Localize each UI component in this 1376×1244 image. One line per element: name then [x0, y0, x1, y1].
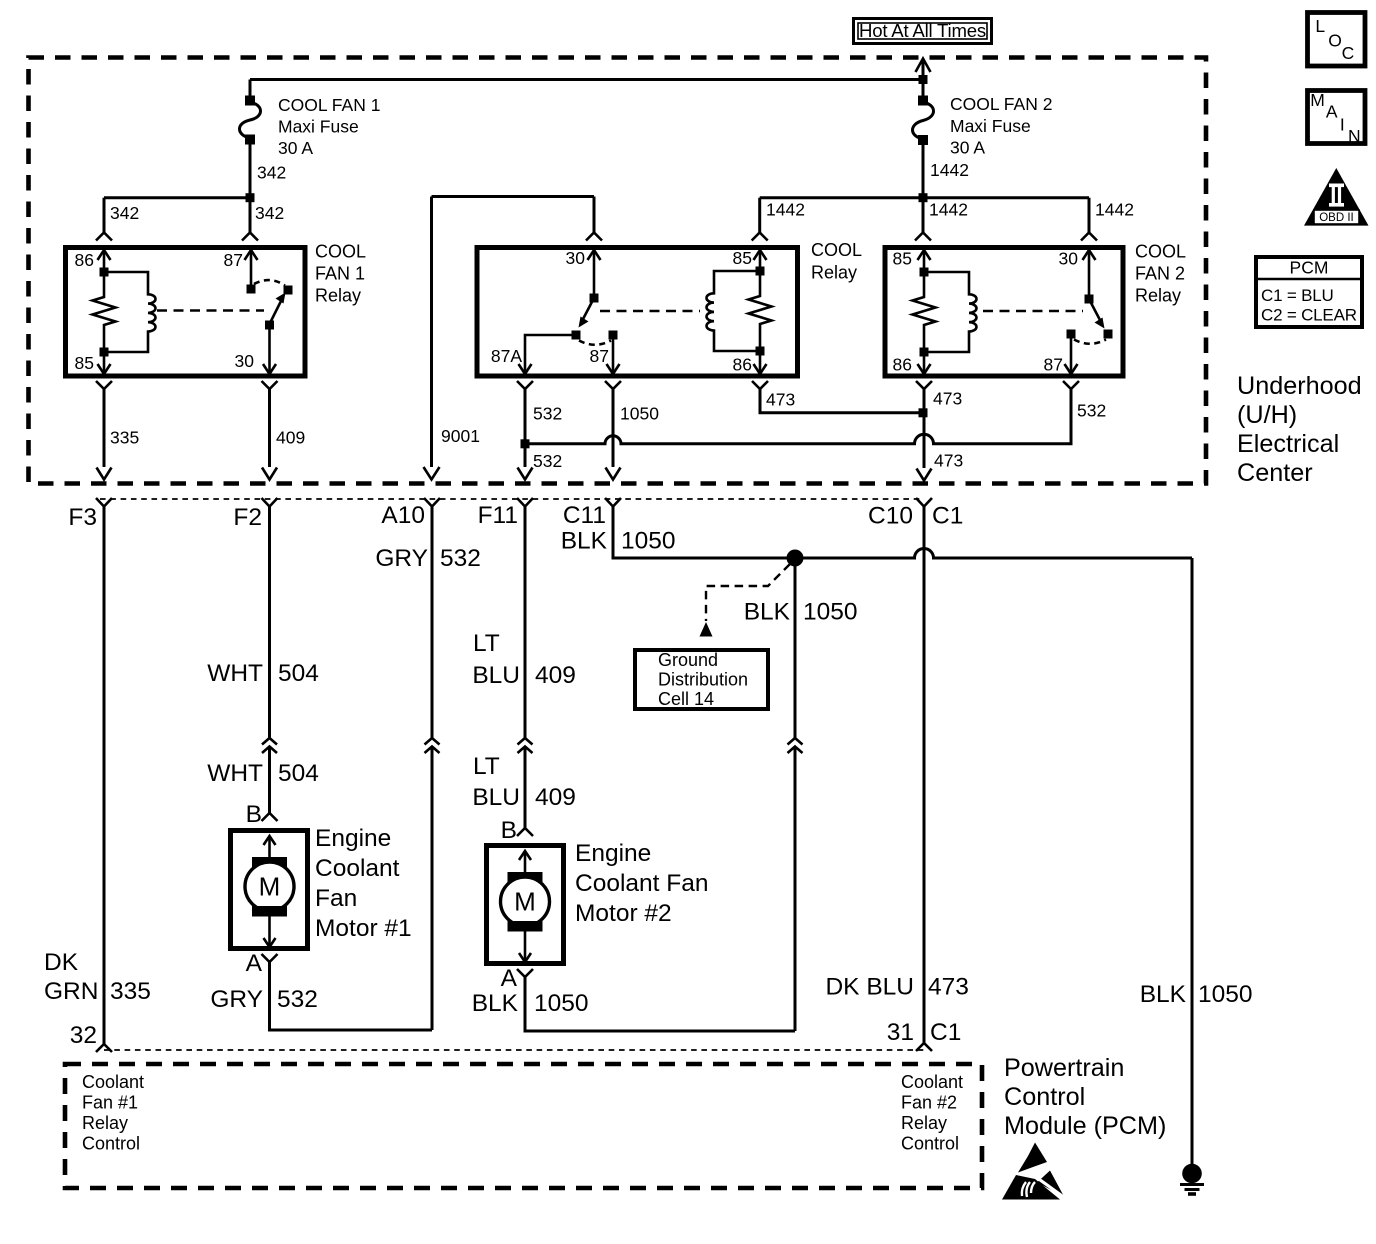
- svg-text:F2: F2: [233, 504, 262, 531]
- Underhood Electrical Center dashed boundary box: [29, 58, 1207, 484]
- svg-text:Coolant: Coolant: [82, 1072, 144, 1092]
- svg-text:FAN 2: FAN 2: [1135, 264, 1185, 284]
- COOL relay coil winding: [706, 271, 760, 351]
- connector above COOL relay pin 30: [586, 233, 602, 241]
- connector: motor2 pin A: [501, 965, 533, 992]
- relay1 switch arm: [254, 280, 293, 329]
- svg-text:C10: C10: [868, 503, 913, 530]
- connector below COOL relay pin 86 (473): [752, 381, 923, 413]
- connector F3: [68, 498, 112, 531]
- wire: 532 link to relay2 pin 87 with hops: [525, 397, 1106, 444]
- svg-text:Control: Control: [82, 1134, 140, 1154]
- svg-text:30: 30: [566, 248, 586, 268]
- svg-text:A10: A10: [381, 502, 425, 529]
- relay1 pin 86 arrow: [75, 250, 111, 277]
- svg-text:Engine: Engine: [575, 840, 651, 867]
- svg-text:31: 31: [887, 1019, 914, 1046]
- svg-text:Coolant: Coolant: [901, 1072, 963, 1092]
- svg-text:PCM: PCM: [1290, 258, 1329, 278]
- break symbol on GRY 532: [425, 738, 440, 753]
- relay1 pin 85 arrow: [75, 352, 111, 374]
- Powertrain Control Module dashed box: [65, 1064, 982, 1188]
- svg-text:(U/H): (U/H): [1237, 401, 1297, 429]
- wire: 342 branch to relay 1: [104, 198, 284, 233]
- COOL relay pin 30 arrow: [566, 248, 601, 303]
- svg-text:1050: 1050: [534, 990, 589, 1017]
- break symbol on WHT 504: [262, 738, 277, 753]
- svg-text:1442: 1442: [929, 200, 968, 220]
- svg-text:DK: DK: [44, 949, 79, 976]
- svg-text:GRN: GRN: [44, 978, 98, 1005]
- wire: BLK 1050 from motor2 A to ground branch: [472, 977, 795, 1031]
- connector below COOL relay pin 87A (532): [517, 381, 562, 480]
- svg-text:Fan #2: Fan #2: [901, 1093, 957, 1113]
- svg-text:85: 85: [733, 248, 752, 268]
- relay box: COOL FAN 1 Relay: [66, 242, 367, 377]
- wire: drop to fuse 1: [249, 80, 252, 101]
- svg-text:532: 532: [440, 545, 481, 572]
- relay2 pin 30 arrow: [1059, 249, 1096, 304]
- connector below relay2 pin 86 (473): [916, 381, 963, 481]
- svg-text:Relay: Relay: [315, 286, 361, 306]
- connector below relay2 pin 87 (532): [1063, 381, 1079, 397]
- label: Coolant Fan #2 Relay Control: [901, 1072, 963, 1154]
- svg-text:A: A: [246, 950, 263, 977]
- svg-text:LT: LT: [473, 630, 500, 657]
- COOL relay coil resistor: [749, 271, 772, 356]
- wire: C11 BLK 1050 to ground junction: [561, 507, 1192, 559]
- label: Powertrain Control Module (PCM): [1004, 1054, 1166, 1140]
- svg-text:C2 = CLEAR: C2 = CLEAR: [1261, 306, 1357, 325]
- COOL relay pin 87A arrow: [491, 335, 576, 374]
- svg-text:30 A: 30 A: [950, 138, 985, 158]
- connector above relay2 pin 30: [1081, 233, 1097, 241]
- svg-text:86: 86: [75, 250, 94, 270]
- wire: 9001 from COOL relay pin 30: [424, 197, 595, 480]
- svg-text:1050: 1050: [1198, 981, 1253, 1008]
- svg-text:87: 87: [224, 250, 243, 270]
- wire: horizontal feed to fuse 1: [250, 78, 923, 81]
- svg-text:1442: 1442: [930, 160, 969, 180]
- svg-text:Fan #1: Fan #1: [82, 1093, 138, 1113]
- svg-text:C: C: [1342, 43, 1355, 63]
- svg-text:OBD II: OBD II: [1319, 212, 1354, 224]
- svg-text:504: 504: [278, 660, 319, 687]
- COOL relay coil-switch dashed link: [600, 310, 700, 313]
- label: Underhood (U/H) Electrical Center: [1237, 372, 1362, 487]
- svg-text:O: O: [1328, 30, 1342, 50]
- connector above relay1 pin 87: [242, 233, 258, 241]
- relay2 coil winding: [920, 272, 977, 357]
- COOL relay pin 86 arrow: [733, 351, 767, 375]
- COOL relay switch arm: [572, 298, 618, 345]
- svg-text:473: 473: [766, 389, 795, 409]
- legend: MAIN box: [1308, 90, 1366, 146]
- motor: Engine Coolant Fan Motor #1: [231, 825, 412, 949]
- svg-text:B: B: [246, 801, 262, 828]
- svg-text:N: N: [1348, 126, 1361, 146]
- svg-text:COOL FAN 2: COOL FAN 2: [950, 94, 1052, 114]
- wire: WHT 504 continues to motor1: [207, 747, 319, 829]
- svg-text:A: A: [1326, 102, 1338, 122]
- break symbol on LT BLU 409: [518, 738, 533, 753]
- svg-text:LT: LT: [473, 753, 500, 780]
- svg-text:Relay: Relay: [82, 1113, 128, 1133]
- node: 532 junction: [521, 439, 530, 448]
- svg-text:32: 32: [70, 1022, 97, 1049]
- svg-text:Motor #2: Motor #2: [575, 900, 672, 927]
- PCM connector face dashed line: [104, 1049, 924, 1051]
- connector below relay1 pin 85: [96, 381, 139, 480]
- Ground Distribution Cell 14 reference box: [635, 650, 768, 709]
- svg-text:C1: C1: [930, 1019, 961, 1046]
- svg-text:1442: 1442: [766, 200, 805, 220]
- svg-text:Ground: Ground: [658, 650, 718, 670]
- svg-text:DK BLU: DK BLU: [825, 973, 914, 1000]
- connector: PCM pin 32: [96, 1044, 112, 1052]
- relay1 pin 87 contact: [224, 250, 258, 294]
- relay2 pin 86 arrow: [893, 352, 931, 375]
- svg-text:L: L: [1315, 16, 1325, 36]
- svg-text:Motor #1: Motor #1: [315, 915, 412, 942]
- svg-text:342: 342: [255, 203, 284, 223]
- svg-text:Hot At All Times: Hot At All Times: [859, 20, 986, 41]
- svg-text:Center: Center: [1237, 459, 1313, 487]
- svg-text:GRY: GRY: [210, 986, 263, 1013]
- svg-text:BLK: BLK: [1140, 981, 1187, 1008]
- svg-text:Control: Control: [901, 1134, 959, 1154]
- connector F11: [478, 498, 533, 529]
- svg-text:BLK: BLK: [472, 990, 519, 1017]
- svg-text:1050: 1050: [620, 403, 659, 423]
- node: 342 branch junction: [246, 193, 255, 202]
- svg-text:COOL: COOL: [315, 242, 366, 262]
- svg-text:86: 86: [733, 355, 752, 375]
- svg-text:Relay: Relay: [811, 263, 857, 283]
- svg-text:WHT: WHT: [207, 660, 263, 687]
- svg-text:GRY: GRY: [375, 545, 428, 572]
- svg-text:532: 532: [1077, 401, 1106, 421]
- svg-text:Powertrain: Powertrain: [1004, 1054, 1124, 1082]
- svg-text:85: 85: [75, 353, 94, 373]
- Hot At All Times power label box: [854, 19, 992, 44]
- dashed reference arrow to ground distribution: [700, 564, 791, 637]
- fuse: COOL FAN 2 Maxi Fuse 30 A: [913, 94, 1053, 198]
- node: BLK 1050 ground junction: [787, 550, 804, 567]
- svg-text:FAN 1: FAN 1: [315, 264, 365, 284]
- connector below COOL relay pin 87 (1050): [605, 381, 659, 480]
- wire: battery feed into U/H center (arrow up): [916, 59, 931, 101]
- svg-text:B: B: [501, 817, 517, 844]
- connector above COOL relay pin 85: [752, 233, 768, 241]
- svg-text:342: 342: [110, 203, 139, 223]
- svg-text:Module (PCM): Module (PCM): [1004, 1112, 1166, 1140]
- motor: Engine Coolant Fan Motor #2: [487, 840, 709, 964]
- svg-text:COOL FAN 1: COOL FAN 1: [278, 95, 380, 115]
- svg-text:Fan: Fan: [315, 885, 357, 912]
- svg-text:BLK: BLK: [561, 528, 608, 555]
- svg-text:87: 87: [590, 346, 609, 366]
- svg-text:Cell 14: Cell 14: [658, 689, 714, 709]
- svg-text:F11: F11: [478, 502, 518, 529]
- COOL relay pin 85 arrow: [733, 248, 767, 276]
- svg-text:Maxi Fuse: Maxi Fuse: [950, 116, 1031, 136]
- relay1 coil resistor: [93, 272, 116, 352]
- svg-text:409: 409: [535, 784, 576, 811]
- svg-text:Maxi Fuse: Maxi Fuse: [278, 117, 359, 137]
- wire: GRY 532 from motor1 A to A10 column: [210, 962, 432, 1030]
- connector: motor1 pin B: [262, 813, 278, 821]
- svg-text:9001: 9001: [441, 426, 480, 446]
- wire: F11 LT BLU 409 down to motor2 B: [472, 507, 576, 738]
- wire: BLK 1050 branch continues: [794, 747, 797, 1032]
- svg-text:473: 473: [928, 973, 969, 1000]
- connector F2: [233, 498, 277, 531]
- svg-text:F3: F3: [68, 504, 97, 531]
- relay2 pin 87 arrow: [1044, 334, 1078, 375]
- relay2 pin 85 arrow: [893, 249, 931, 277]
- svg-text:409: 409: [276, 428, 305, 448]
- relay box: COOL Relay: [477, 240, 862, 376]
- connector: PCM pin 31 C1: [916, 1043, 932, 1051]
- wire: ground branch down to motor2 A: [744, 558, 858, 738]
- svg-text:M: M: [514, 887, 536, 917]
- svg-text:Electrical: Electrical: [1237, 430, 1339, 458]
- ESD sensitivity symbol: [1002, 1143, 1065, 1200]
- wire: F3 DK GRN 335 down to PCM pin 32: [44, 507, 151, 1050]
- svg-text:30: 30: [235, 351, 255, 371]
- node: feed junction: [919, 75, 928, 84]
- svg-text:409: 409: [535, 662, 576, 689]
- svg-text:30: 30: [1059, 249, 1079, 269]
- svg-text:87A: 87A: [491, 346, 522, 366]
- svg-text:1442: 1442: [1095, 200, 1134, 220]
- relay2 coil-switch dashed link: [983, 310, 1083, 313]
- wire: C10 DK BLU 473 down to PCM pin 31: [825, 507, 968, 1047]
- wire: BLK 1050 to chassis ground: [1140, 558, 1253, 1164]
- fuse: COOL FAN 1 Maxi Fuse 30 A: [240, 95, 381, 198]
- svg-text:30 A: 30 A: [278, 138, 313, 158]
- relay2 coil resistor: [913, 272, 936, 352]
- legend: LOC box: [1308, 13, 1366, 67]
- svg-text:Coolant: Coolant: [315, 855, 400, 882]
- relay2 switch arm: [1067, 299, 1113, 344]
- break symbol on BLK 1050 branch: [788, 738, 803, 753]
- connector A10: [381, 498, 440, 529]
- wire: F2 WHT 504 down to motor1 B: [207, 507, 319, 738]
- U/H connector face dashed line: [100, 498, 920, 500]
- svg-text:473: 473: [934, 451, 963, 471]
- svg-text:86: 86: [893, 355, 912, 375]
- svg-text:532: 532: [277, 986, 318, 1013]
- svg-text:BLU: BLU: [472, 784, 520, 811]
- svg-text:Relay: Relay: [901, 1113, 947, 1133]
- svg-text:335: 335: [110, 978, 151, 1005]
- svg-text:M: M: [1310, 90, 1325, 110]
- connector: motor1 pin A: [246, 950, 278, 977]
- svg-text:532: 532: [533, 451, 562, 471]
- svg-text:M: M: [259, 872, 281, 902]
- svg-text:Coolant Fan: Coolant Fan: [575, 870, 708, 897]
- legend: PCM connector colors box: [1254, 257, 1364, 327]
- connector below relay1 pin 30 (409): [262, 381, 306, 480]
- svg-text:Underhood: Underhood: [1237, 372, 1362, 400]
- wire: GRY 532 continues down: [431, 747, 434, 1031]
- svg-text:C1: C1: [932, 503, 963, 530]
- svg-text:Control: Control: [1004, 1083, 1085, 1111]
- svg-text:1050: 1050: [803, 598, 858, 625]
- svg-text:BLU: BLU: [472, 662, 520, 689]
- wire: 1442 branch to COOL relay and relay 2: [760, 198, 1134, 233]
- svg-text:COOL: COOL: [811, 240, 862, 260]
- svg-text:C1 = BLU: C1 = BLU: [1261, 286, 1334, 305]
- wire: A10 GRY 532 column: [375, 507, 481, 738]
- svg-text:Relay: Relay: [1135, 286, 1181, 306]
- COOL relay pin 87 arrow: [590, 335, 620, 374]
- legend: OBD II triangle: [1304, 168, 1369, 226]
- svg-text:87: 87: [1044, 355, 1063, 375]
- svg-text:COOL: COOL: [1135, 242, 1186, 262]
- connector: motor2 pin B: [517, 828, 533, 836]
- svg-text:BLK: BLK: [744, 598, 791, 625]
- ground symbol G103: [1180, 1164, 1204, 1194]
- relay box: COOL FAN 2 Relay: [885, 242, 1186, 377]
- connector above relay1 pin 86: [96, 233, 112, 241]
- node: 1442 branch junction: [919, 193, 928, 202]
- svg-text:1050: 1050: [621, 528, 676, 555]
- svg-text:342: 342: [257, 163, 286, 183]
- svg-text:335: 335: [110, 428, 139, 448]
- connector above relay2 pin 85: [915, 233, 931, 241]
- connector C11: [563, 498, 621, 529]
- svg-text:473: 473: [933, 389, 962, 409]
- relay1 coil winding: [100, 272, 156, 357]
- svg-text:C11: C11: [563, 502, 606, 529]
- svg-text:504: 504: [278, 760, 319, 787]
- wire: LT BLU 409 continues to motor2: [472, 747, 576, 845]
- relay1 coil-switch dashed link: [157, 309, 264, 312]
- svg-text:Engine: Engine: [315, 825, 391, 852]
- node: 473 junction: [919, 408, 928, 417]
- svg-text:85: 85: [893, 249, 912, 269]
- svg-text:I: I: [1340, 114, 1345, 134]
- svg-text:A: A: [501, 965, 518, 992]
- relay1 pin 30 arrow: [235, 324, 276, 374]
- connector C10 / C1: [868, 498, 963, 530]
- svg-text:532: 532: [533, 403, 562, 423]
- svg-text:WHT: WHT: [207, 760, 263, 787]
- svg-text:Distribution: Distribution: [658, 670, 748, 690]
- label: Coolant Fan #1 Relay Control: [82, 1072, 144, 1154]
